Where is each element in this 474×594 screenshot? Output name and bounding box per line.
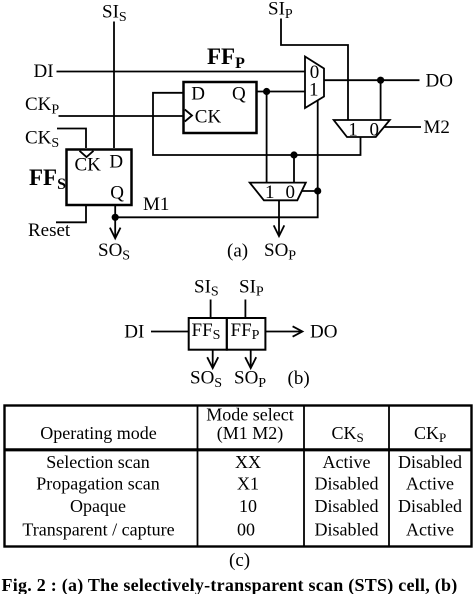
flip-flop FFs box: [67, 150, 132, 206]
svg-text:X1: X1: [237, 473, 259, 493]
svg-text:(b): (b): [288, 368, 310, 389]
svg-text:DO: DO: [310, 322, 337, 343]
node FFs Q / M1 junction: [112, 214, 119, 221]
table column separator 2: [303, 406, 305, 547]
svg-text:(M1 M2): (M1 M2): [217, 423, 284, 444]
wire b DO arrow: [265, 331, 302, 333]
arrowhead SOp: [274, 225, 285, 236]
svg-text:CK: CK: [195, 107, 222, 128]
svg-text:Active: Active: [406, 520, 454, 540]
svg-text:Transparent / capture: Transparent / capture: [22, 520, 174, 540]
svg-text:10: 10: [239, 496, 257, 516]
svg-text:Disabled: Disabled: [398, 496, 462, 516]
svg-text:Active: Active: [323, 452, 371, 472]
wire DO: [325, 79, 420, 81]
wire FFp Q to DO-mux 1: [257, 91, 305, 93]
arrowhead SOs: [110, 228, 121, 239]
svg-text:1: 1: [348, 119, 358, 140]
wire FFp Q to SOp-mux 1 input: [266, 92, 268, 183]
wire M2 select: [385, 126, 422, 128]
wire CKp to FFp CK: [59, 115, 185, 117]
svg-text:(c): (c): [229, 550, 250, 571]
table column separator 1: [197, 406, 199, 547]
svg-text:1: 1: [265, 182, 275, 203]
svg-text:Propagation scan: Propagation scan: [36, 473, 159, 493]
mux U1 DO output mux: [305, 57, 324, 109]
wire b SIs stub: [210, 300, 212, 319]
flip-flop FFp box: [184, 82, 257, 133]
flip-flop b FFp box: [227, 318, 266, 350]
arrowhead b DO: [293, 326, 303, 336]
svg-text:D: D: [109, 152, 123, 173]
wire Reset to FFs: [56, 206, 86, 222]
svg-text:(a): (a): [227, 241, 248, 262]
svg-text:Active: Active: [406, 473, 454, 493]
svg-text:0: 0: [370, 119, 380, 140]
svg-text:Selection scan: Selection scan: [46, 452, 149, 472]
svg-text:1: 1: [309, 80, 319, 101]
node FFp Q branch junction: [263, 88, 270, 95]
wire b SOs arrow: [212, 350, 214, 368]
svg-text:Disabled: Disabled: [398, 452, 462, 472]
wire SOp-mux select: [302, 190, 318, 192]
wire DI to mux0: [57, 71, 306, 73]
node M1 / SOp-mux select junction: [314, 187, 321, 194]
flip-flop b FFs box: [189, 318, 227, 350]
wire b SIp stub: [244, 300, 246, 319]
wire b SOp arrow: [250, 350, 252, 368]
svg-text:DI: DI: [34, 61, 54, 82]
svg-text:0: 0: [285, 182, 295, 203]
svg-text:Mode select: Mode select: [206, 405, 293, 425]
mux U3 SOp mux: [250, 183, 306, 201]
wire M1 to DO-mux select: [115, 100, 318, 217]
svg-text:Disabled: Disabled: [315, 473, 379, 493]
table frame: [5, 406, 472, 547]
svg-text:Q: Q: [110, 183, 124, 204]
svg-text:Disabled: Disabled: [315, 520, 379, 540]
wire SIs to FFs D: [113, 22, 115, 149]
node feedback / SOp-mux 0 junction: [290, 151, 297, 158]
svg-text:DI: DI: [124, 322, 144, 343]
wire DO to M2-mux 0 input: [380, 80, 382, 119]
wire SIp to M2-mux 1 input: [281, 19, 348, 120]
node DO / M2-mux 0 junction: [377, 77, 384, 84]
svg-text:D: D: [191, 84, 205, 105]
wire M2-mux output feedback to FFp D: [153, 93, 361, 155]
svg-text:Opaque: Opaque: [70, 496, 126, 516]
wire SOp output: [278, 201, 280, 236]
mux U2 M2 mux: [334, 120, 390, 137]
FFs clock edge triangle: [80, 151, 94, 157]
svg-text:M2: M2: [424, 117, 450, 138]
table column separator 3: [388, 406, 390, 547]
wire FFs Q out to SOs: [114, 206, 116, 238]
table header separator: [5, 448, 472, 451]
svg-text:XX: XX: [235, 452, 261, 472]
FFp clock edge triangle: [185, 110, 192, 122]
svg-text:CK: CK: [75, 154, 102, 175]
svg-text:00: 00: [237, 520, 255, 540]
svg-text:Fig. 2 : (a) The selectively-t: Fig. 2 : (a) The selectively-transparent…: [2, 575, 458, 594]
arrowhead b SOs: [207, 357, 218, 368]
arrowhead b SOp: [245, 357, 256, 368]
svg-text:Q: Q: [232, 84, 246, 105]
svg-text:M1: M1: [143, 194, 169, 215]
wire CKs to FFs CK: [57, 129, 86, 149]
svg-text:Disabled: Disabled: [315, 496, 379, 516]
svg-text:Operating mode: Operating mode: [40, 423, 156, 443]
wire b DI: [151, 331, 189, 333]
svg-text:DO: DO: [426, 71, 453, 92]
wire SOp-mux 0 input: [293, 155, 295, 182]
